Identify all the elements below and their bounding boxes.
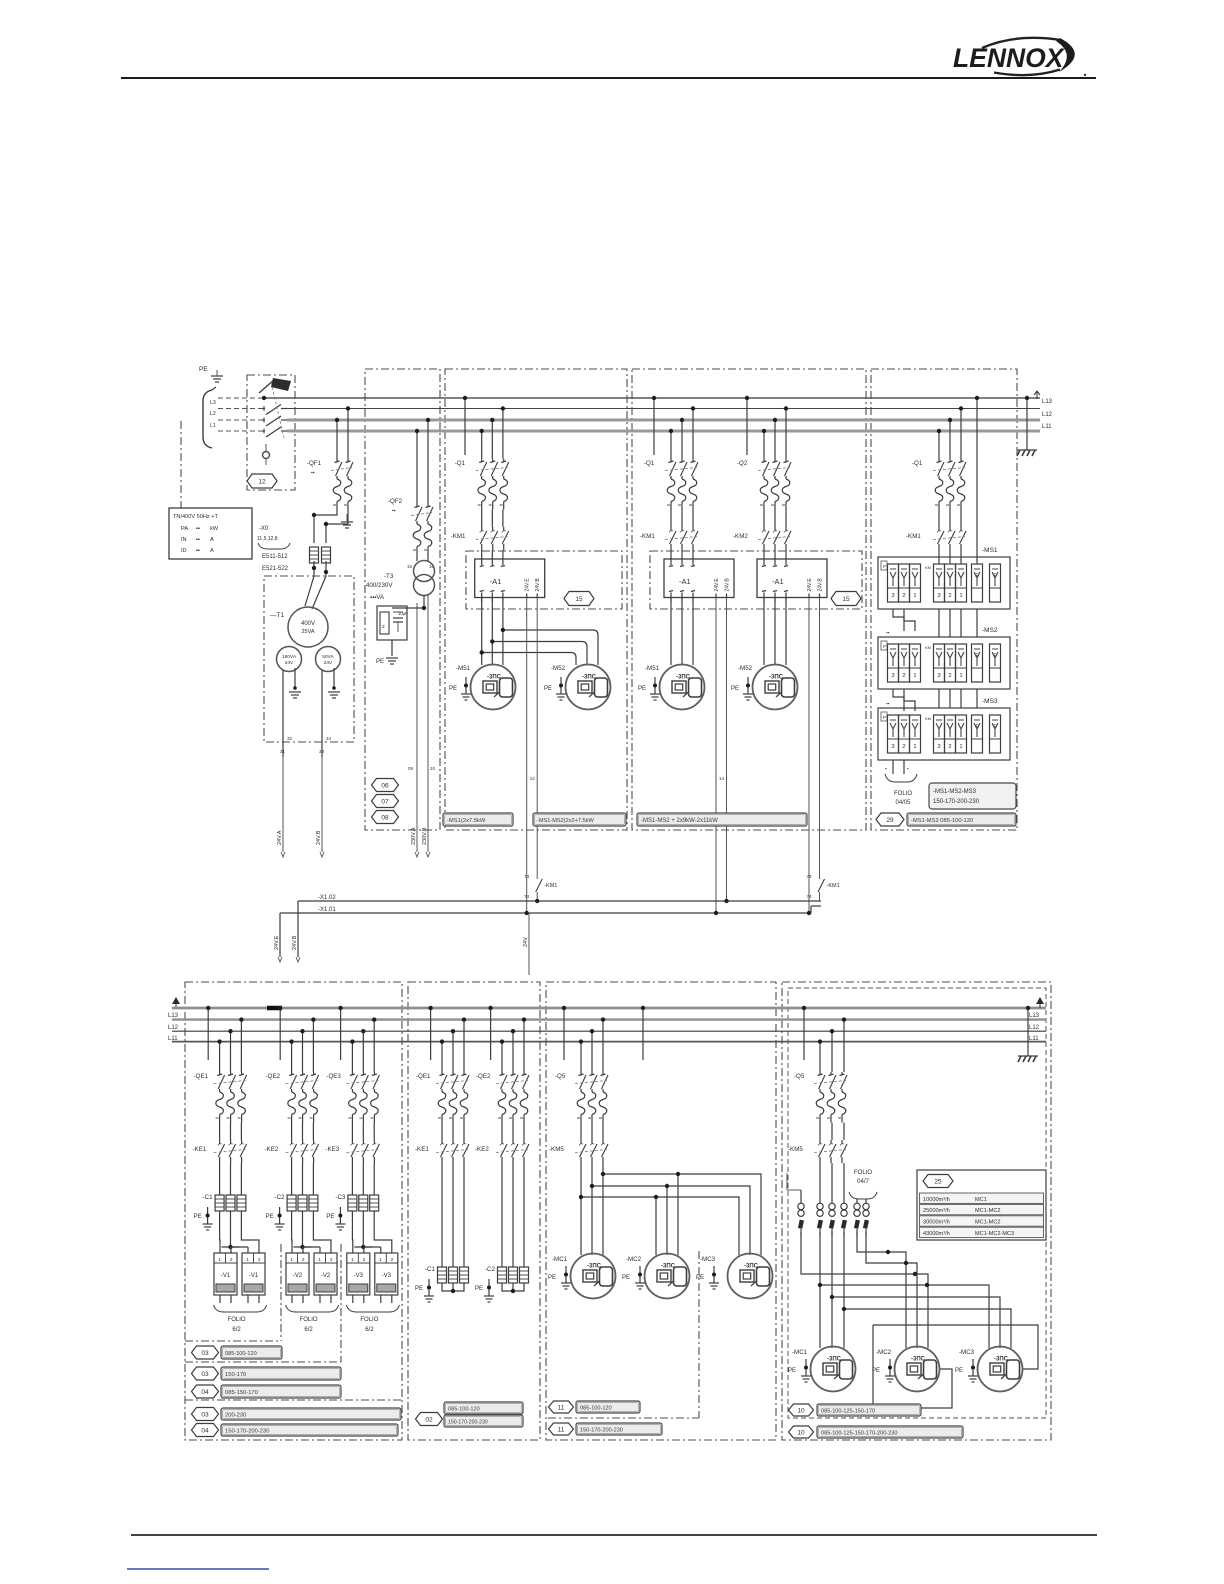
label FOLIO 6/2 (1) — [228, 1317, 246, 1333]
svg-text:-QE1: -QE1 — [194, 1073, 209, 1080]
svg-text:1: 1 — [959, 673, 962, 679]
caption V r5 — [221, 1424, 398, 1436]
current transformer T4 — [841, 1203, 847, 1236]
svg-text:31: 31 — [280, 749, 286, 754]
svg-text:1: 1 — [351, 1257, 354, 1263]
fuse group C2 — [287, 1195, 318, 1211]
fan speed block V3.1 — [347, 1253, 370, 1303]
circuit breaker Q5 — [555, 1072, 608, 1123]
svg-text:25000m³/h: 25000m³/h — [923, 1208, 950, 1214]
circuit breaker QE2b — [476, 1072, 529, 1123]
enclosure box T1 — [264, 576, 354, 742]
motor M52d — [753, 665, 798, 710]
svg-text:PE: PE — [548, 1275, 556, 1281]
svg-text:-MS1-MS2(2x2+7.5kW: -MS1-MS2(2x2+7.5kW — [537, 818, 594, 824]
svg-text:-C1: -C1 — [425, 1266, 436, 1273]
svg-text:150-170-200-230: 150-170-200-230 — [580, 1428, 623, 1434]
svg-text:3: 3 — [937, 593, 940, 599]
svg-text:▪▪: ▪▪ — [311, 470, 315, 476]
caption box4 r2 — [789, 1426, 964, 1438]
enclosure box QF2/T3 column — [365, 369, 440, 830]
motor M51 — [471, 665, 516, 710]
contactor KM5r — [788, 1140, 847, 1163]
wire QF1 out — [312, 510, 348, 544]
fuse group C1b — [438, 1267, 469, 1283]
wire C2b join — [502, 1283, 524, 1293]
wire QE3-KE — [352, 1123, 374, 1141]
svg-text:MC1: MC1 — [975, 1197, 987, 1203]
svg-text:-V2: -V2 — [293, 1273, 303, 1279]
terminal rail X1.01 — [280, 906, 821, 957]
svg-text:▪: ▪ — [907, 766, 909, 771]
enclosure box motor group 2 — [632, 369, 866, 830]
PE motor M52 — [544, 677, 566, 700]
contactor KE1 — [193, 1140, 247, 1163]
svg-text:MC1-MC2: MC1-MC2 — [975, 1208, 1000, 1214]
PE motor MC3 — [696, 1266, 719, 1289]
circuit breaker QE3 — [326, 1072, 379, 1123]
tag 29 — [876, 813, 904, 826]
svg-text:-X0: -X0 — [259, 526, 269, 532]
terminal strip MS3 label — [982, 698, 998, 705]
svg-text:150-170-200-230: 150-170-200-230 — [448, 1420, 488, 1426]
motor MC1 — [571, 1254, 616, 1299]
svg-text:-MC2: -MC2 — [876, 1349, 892, 1356]
svg-text:PE: PE — [266, 1214, 274, 1220]
svg-text:3: 3 — [891, 593, 894, 599]
svg-text:PE: PE — [544, 686, 552, 692]
caption group C — [443, 813, 513, 826]
wire to A1 -Q1 — [482, 550, 503, 555]
svg-text:E511-512: E511-512 — [262, 554, 288, 560]
svg-text:1: 1 — [290, 1257, 293, 1263]
wire A1-C to M51 — [482, 598, 503, 666]
controller A1 (-Q1) — [475, 555, 545, 602]
svg-text:11,5,12,8: 11,5,12,8 — [257, 536, 278, 542]
tag 04 r3 — [192, 1385, 219, 1398]
enclosure inner box right — [788, 988, 1046, 1418]
svg-text:10µF: 10µF — [398, 611, 408, 616]
caption V r3 — [221, 1385, 341, 1398]
current transformer T6 — [863, 1203, 869, 1236]
contactor KM (MS) — [906, 527, 966, 550]
wire MS3 out — [885, 760, 917, 782]
fan speed block V1.2 — [242, 1253, 265, 1303]
svg-text:PE: PE — [788, 1368, 796, 1374]
svg-text:-MS1-MS2 085-100-120: -MS1-MS2 085-100-120 — [911, 818, 973, 824]
label FOLIO 04/05 — [894, 791, 912, 806]
svg-text:03: 03 — [201, 1411, 209, 1418]
svg-text:PE: PE — [326, 1214, 334, 1220]
svg-text:3: 3 — [891, 673, 894, 679]
PE label filter — [376, 659, 384, 665]
PE tap C2b — [475, 1279, 494, 1302]
svg-text:34: 34 — [326, 736, 332, 741]
wire rails to MC2 — [801, 1232, 928, 1348]
svg-text:-KM2: -KM2 — [733, 533, 748, 540]
svg-text:-MS1: -MS1 — [982, 547, 998, 554]
wire bus L11 bottom — [172, 1041, 1046, 1043]
svg-text:-MS1-MS2 + 2x9kW-2x11kW: -MS1-MS2 + 2x9kW-2x11kW — [641, 818, 718, 824]
svg-text:-A1: -A1 — [490, 577, 502, 586]
svg-text:150-170-200-230: 150-170-200-230 — [933, 799, 980, 805]
svg-text:-KE3: -KE3 — [325, 1146, 339, 1153]
wire 24V feeders — [277, 757, 324, 857]
svg-text:04/7: 04/7 — [857, 1179, 869, 1185]
wire A1-C to M52 — [480, 628, 599, 665]
svg-text:085-100-120: 085-100-120 — [448, 1407, 480, 1413]
svg-text:L13: L13 — [1029, 1013, 1040, 1019]
PE motor M51 — [449, 677, 471, 700]
node L11 right-b — [1029, 1036, 1039, 1042]
motor MC2r label — [876, 1349, 892, 1356]
svg-text:MC1-MC2: MC1-MC2 — [975, 1220, 1000, 1226]
svg-text:FOLIO: FOLIO — [228, 1317, 246, 1323]
svg-text:11: 11 — [558, 1404, 565, 1411]
svg-text:-Q1: -Q1 — [644, 460, 655, 467]
wire rails to MC3 — [818, 1283, 1011, 1348]
svg-text:230V.B: 230V.B — [422, 827, 428, 845]
svg-text:3: 3 — [937, 673, 940, 679]
svg-text:PE: PE — [475, 1286, 483, 1292]
fan speed block V2.1 — [286, 1253, 309, 1303]
wire Q5-KM5 — [581, 1123, 603, 1141]
wire to A1 -Q2 — [764, 550, 786, 555]
svg-text:150-170-200-230: 150-170-200-230 — [225, 1429, 269, 1435]
svg-text:24V.B: 24V.B — [292, 935, 298, 950]
circuit breaker QF1 — [307, 459, 353, 510]
svg-text:07: 07 — [381, 798, 389, 805]
enclosure control sub-box C — [466, 551, 622, 609]
svg-text:160VA: 160VA — [282, 654, 297, 660]
table tag 25 — [917, 1170, 1046, 1240]
svg-text:2: 2 — [948, 673, 951, 679]
enclosure box main switch — [247, 375, 295, 490]
svg-text:24V.E: 24V.E — [525, 578, 531, 592]
PE tap C1b — [415, 1279, 434, 1302]
PE motor MC1r — [788, 1359, 811, 1382]
wire PE drop right — [1025, 396, 1029, 450]
svg-text:230V.A: 230V.A — [411, 827, 417, 845]
table row 2 — [920, 1204, 1044, 1214]
svg-text:08: 08 — [381, 814, 389, 821]
svg-text:11: 11 — [558, 1426, 565, 1433]
svg-text:▪▪: ▪▪ — [196, 526, 200, 532]
svg-text:▪▪▪VA: ▪▪▪VA — [370, 595, 384, 601]
svg-text:10: 10 — [797, 1429, 805, 1436]
motor MC3 — [728, 1254, 773, 1299]
svg-text:-V1: -V1 — [221, 1273, 231, 1279]
node L12 right-b — [1029, 1025, 1040, 1031]
svg-text:085-100-120: 085-100-120 — [580, 1406, 612, 1412]
contactor -KM2 — [733, 527, 791, 550]
node PE arrow bottom-left — [172, 997, 180, 1008]
brace folio — [849, 1192, 877, 1199]
node L13 left — [168, 1013, 179, 1019]
terminal X0 — [257, 526, 290, 549]
wire QE2b-KE — [502, 1123, 524, 1141]
svg-text:06: 06 — [381, 782, 389, 789]
svg-text:-KE2: -KE2 — [265, 1146, 279, 1153]
PE motor MC2r — [872, 1359, 895, 1382]
ground — [211, 370, 223, 382]
svg-text:10: 10 — [430, 766, 436, 771]
fuse group C1b label — [425, 1266, 436, 1273]
fan speed block V3.2 — [375, 1253, 398, 1303]
svg-text:085-100-120: 085-100-120 — [225, 1351, 257, 1357]
svg-text:kW: kW — [210, 526, 219, 532]
wire staircase MC feeds — [579, 1163, 761, 1255]
wire KE1 to fuses — [220, 1163, 242, 1195]
table row 4 — [920, 1227, 1044, 1237]
svg-text:2: 2 — [902, 593, 905, 599]
svg-text:▪▪: ▪▪ — [196, 548, 200, 554]
contactor KE2 — [265, 1140, 319, 1163]
contactor aux KM1 contact (left) — [524, 874, 557, 901]
svg-text:24V.B: 24V.B — [725, 578, 731, 592]
svg-text:-KE1: -KE1 — [193, 1146, 207, 1153]
svg-text:10: 10 — [797, 1407, 805, 1414]
svg-text:P: P — [883, 564, 886, 569]
svg-text:-KM5: -KM5 — [549, 1146, 564, 1153]
terminal strip MS1 — [878, 557, 1010, 609]
wire bus L3 — [218, 408, 1040, 410]
node L13 right — [1042, 399, 1053, 405]
tag 03 r1 — [192, 1346, 219, 1359]
switch contacts — [262, 382, 287, 438]
svg-text:085-150-170: 085-150-170 — [225, 1390, 258, 1396]
ground mid — [341, 514, 353, 528]
svg-text:2: 2 — [302, 1257, 305, 1263]
wire -Q2 to -KM2 — [764, 510, 786, 528]
svg-text:-KE2: -KE2 — [475, 1146, 489, 1153]
svg-text:-Q1: -Q1 — [912, 460, 923, 467]
svg-text:-KM1: -KM1 — [451, 533, 466, 540]
tag 08 — [372, 811, 399, 824]
node L12 right — [1042, 412, 1053, 418]
svg-text:-M52: -M52 — [738, 665, 753, 672]
label FOLIO 6/2 (2) — [300, 1317, 318, 1333]
PE tap C2 — [266, 1207, 285, 1230]
tag 15 (D) — [831, 592, 861, 606]
wire C2 to V blocks — [292, 1211, 331, 1253]
svg-text:-MC3: -MC3 — [959, 1349, 975, 1356]
fan speed block V1.1 — [214, 1253, 237, 1303]
svg-text:15: 15 — [407, 564, 413, 569]
wire PE drop bottom-right — [1026, 1006, 1030, 1056]
svg-text:-M52: -M52 — [551, 665, 566, 672]
svg-text:1: 1 — [246, 1257, 249, 1263]
label 15 16 — [407, 564, 435, 569]
svg-text:14: 14 — [530, 776, 536, 781]
svg-text:2: 2 — [948, 593, 951, 599]
tag 04 r5 — [192, 1424, 219, 1437]
svg-text:-KM1: -KM1 — [544, 883, 557, 889]
svg-text:1: 1 — [379, 1257, 382, 1263]
svg-text:KM: KM — [925, 565, 931, 570]
svg-text:PE: PE — [696, 1275, 704, 1281]
svg-text:-KM1: -KM1 — [640, 533, 655, 540]
enclosure box fans MC direct — [546, 982, 776, 1440]
motor MC3 label — [700, 1256, 716, 1263]
fuse group C3 — [348, 1195, 379, 1211]
wire C1b join — [442, 1283, 464, 1293]
node L-bracket — [203, 387, 216, 448]
svg-text:2: 2 — [363, 1257, 366, 1263]
svg-text:-C2: -C2 — [275, 1194, 286, 1201]
svg-text:50VA: 50VA — [322, 654, 334, 660]
wire KE3 to fuses — [352, 1163, 374, 1195]
fuse group C1 label — [203, 1194, 214, 1201]
svg-text:24V.E: 24V.E — [807, 578, 813, 592]
contactor KE1b — [415, 1140, 469, 1163]
svg-text:09: 09 — [408, 766, 414, 771]
wire QE1b-KE — [442, 1123, 464, 1141]
svg-text:25: 25 — [934, 1178, 942, 1185]
svg-text:085-100-125-150-170: 085-100-125-150-170 — [821, 1409, 875, 1415]
svg-text:-Q5: -Q5 — [555, 1073, 566, 1080]
wire bus N (top) — [218, 397, 1040, 399]
disconnect switch Q0 — [259, 378, 291, 400]
svg-text:PA: PA — [181, 526, 188, 532]
svg-text:-Q2: -Q2 — [737, 460, 748, 467]
circuit breaker -Q2 — [737, 459, 791, 510]
fuse group C1 — [215, 1195, 246, 1211]
current transformer T1 — [798, 1203, 804, 1236]
svg-text:L1: L1 — [210, 423, 216, 429]
svg-text:1: 1 — [913, 593, 916, 599]
wire A1-D2 to M52 — [764, 598, 786, 666]
svg-text:-A1: -A1 — [679, 577, 691, 586]
wire bold joint — [267, 1006, 282, 1011]
svg-text:L12: L12 — [1042, 412, 1053, 418]
wire QE bus taps — [937, 396, 979, 564]
svg-text:-KE1: -KE1 — [415, 1146, 429, 1153]
svg-text:-C1: -C1 — [203, 1194, 214, 1201]
svg-text:PE: PE — [449, 686, 457, 692]
svg-text:-QE3: -QE3 — [326, 1073, 341, 1080]
svg-text:2: 2 — [230, 1257, 233, 1263]
svg-text:L12: L12 — [168, 1025, 179, 1031]
svg-text:1: 1 — [913, 744, 916, 750]
svg-text:-V3: -V3 — [382, 1273, 392, 1279]
svg-text:-QF1: -QF1 — [307, 460, 322, 467]
enclosure box fans V1-V3 — [185, 982, 402, 1440]
svg-text:PE: PE — [731, 686, 739, 692]
label pins — [280, 736, 332, 754]
tag 03 r2 — [192, 1367, 219, 1380]
svg-text:-M51: -M51 — [456, 665, 471, 672]
svg-text:1: 1 — [218, 1257, 221, 1263]
PE tap C3 — [326, 1207, 345, 1230]
wire C1 to V blocks — [220, 1211, 259, 1253]
wire -Q1 to -KM1 — [482, 510, 503, 528]
svg-text:L2: L2 — [210, 411, 216, 417]
ground filter — [386, 658, 398, 664]
caption box4 r1 — [789, 1404, 922, 1416]
svg-text:ID: ID — [181, 548, 187, 554]
PE motor MC1 — [548, 1266, 571, 1289]
svg-text:1: 1 — [318, 1257, 321, 1263]
svg-text:FOLIO: FOLIO — [360, 1317, 378, 1323]
svg-text:15: 15 — [842, 596, 850, 603]
caption V r1 — [221, 1346, 282, 1359]
transformer T1 label — [270, 612, 284, 619]
svg-text:PE: PE — [638, 686, 646, 692]
svg-text:14: 14 — [719, 776, 725, 781]
contactor KE3 — [325, 1140, 379, 1163]
divider dash b3 — [185, 1399, 402, 1401]
wire bus L2 — [218, 419, 1040, 421]
circuit breaker -Q1 — [455, 459, 509, 510]
svg-text:-C3: -C3 — [335, 1194, 346, 1201]
label FOLIO 6/2 (3) — [360, 1317, 378, 1333]
svg-text:12: 12 — [258, 478, 266, 485]
svg-text:1: 1 — [959, 744, 962, 750]
wire QE1 bus taps — [206, 1006, 244, 1072]
wire to T1 — [305, 561, 328, 609]
svg-text:6/2: 6/2 — [304, 1327, 313, 1333]
motor M51d label — [645, 665, 660, 672]
wire QE2b bus taps — [488, 1006, 526, 1072]
wire QE1b bus taps — [428, 1006, 466, 1072]
svg-text:74: 74 — [524, 894, 530, 899]
svg-text:▪: ▪ — [885, 766, 887, 771]
tag 12 — [247, 474, 277, 488]
switch coil — [263, 444, 270, 465]
svg-text:24V: 24V — [285, 660, 294, 666]
label FOLIO 04/7 — [854, 1170, 872, 1185]
caption box3 r1 — [549, 1401, 641, 1413]
svg-text:02: 02 — [425, 1416, 433, 1423]
motor M52 label — [551, 665, 566, 672]
contactor KM5 — [549, 1140, 608, 1163]
motor MC3r label — [959, 1349, 975, 1356]
transformer T1 primary — [288, 607, 328, 647]
PE tap C1 — [194, 1207, 213, 1230]
tag 03 r4 — [192, 1408, 219, 1421]
node L12 left — [168, 1025, 179, 1031]
svg-text:TN/400V 50Hz +T: TN/400V 50Hz +T — [173, 514, 219, 520]
svg-text:MC1-MC2-MC3: MC1-MC2-MC3 — [975, 1231, 1014, 1237]
svg-text:KM: KM — [925, 716, 931, 721]
svg-text:-MS1-MS2-MS3: -MS1-MS2-MS3 — [933, 789, 977, 795]
motor MC1 label — [552, 1256, 568, 1263]
caption V r4 — [221, 1408, 401, 1420]
svg-text:085-100-125-150-170-200-230: 085-100-125-150-170-200-230 — [821, 1431, 898, 1437]
svg-text:E521-522: E521-522 — [262, 566, 289, 572]
svg-text:400/230V: 400/230V — [366, 582, 393, 589]
svg-text:-Q5: -Q5 — [794, 1073, 805, 1080]
enclosure box fans MC right — [782, 982, 1051, 1440]
motor MC1r — [811, 1347, 856, 1392]
svg-text:LENNOX: LENNOX — [953, 43, 1065, 73]
svg-text:-V2: -V2 — [321, 1273, 331, 1279]
wire Q5r-KM5r — [820, 1123, 844, 1141]
svg-text:24V.B: 24V.B — [316, 830, 322, 845]
wire KE1b down — [442, 1163, 464, 1267]
svg-text:PE: PE — [194, 1214, 202, 1220]
svg-text:-QE2: -QE2 — [476, 1073, 491, 1080]
enclosure box motor group 1 — [445, 369, 627, 830]
svg-text:-KM5: -KM5 — [788, 1146, 803, 1153]
svg-text:1: 1 — [913, 673, 916, 679]
svg-text:PE: PE — [376, 659, 384, 665]
svg-text:-M51: -M51 — [645, 665, 660, 672]
circuit breaker QE2 — [266, 1072, 319, 1123]
svg-text:-KM1: -KM1 — [906, 533, 921, 540]
transformer T3 — [366, 555, 435, 602]
